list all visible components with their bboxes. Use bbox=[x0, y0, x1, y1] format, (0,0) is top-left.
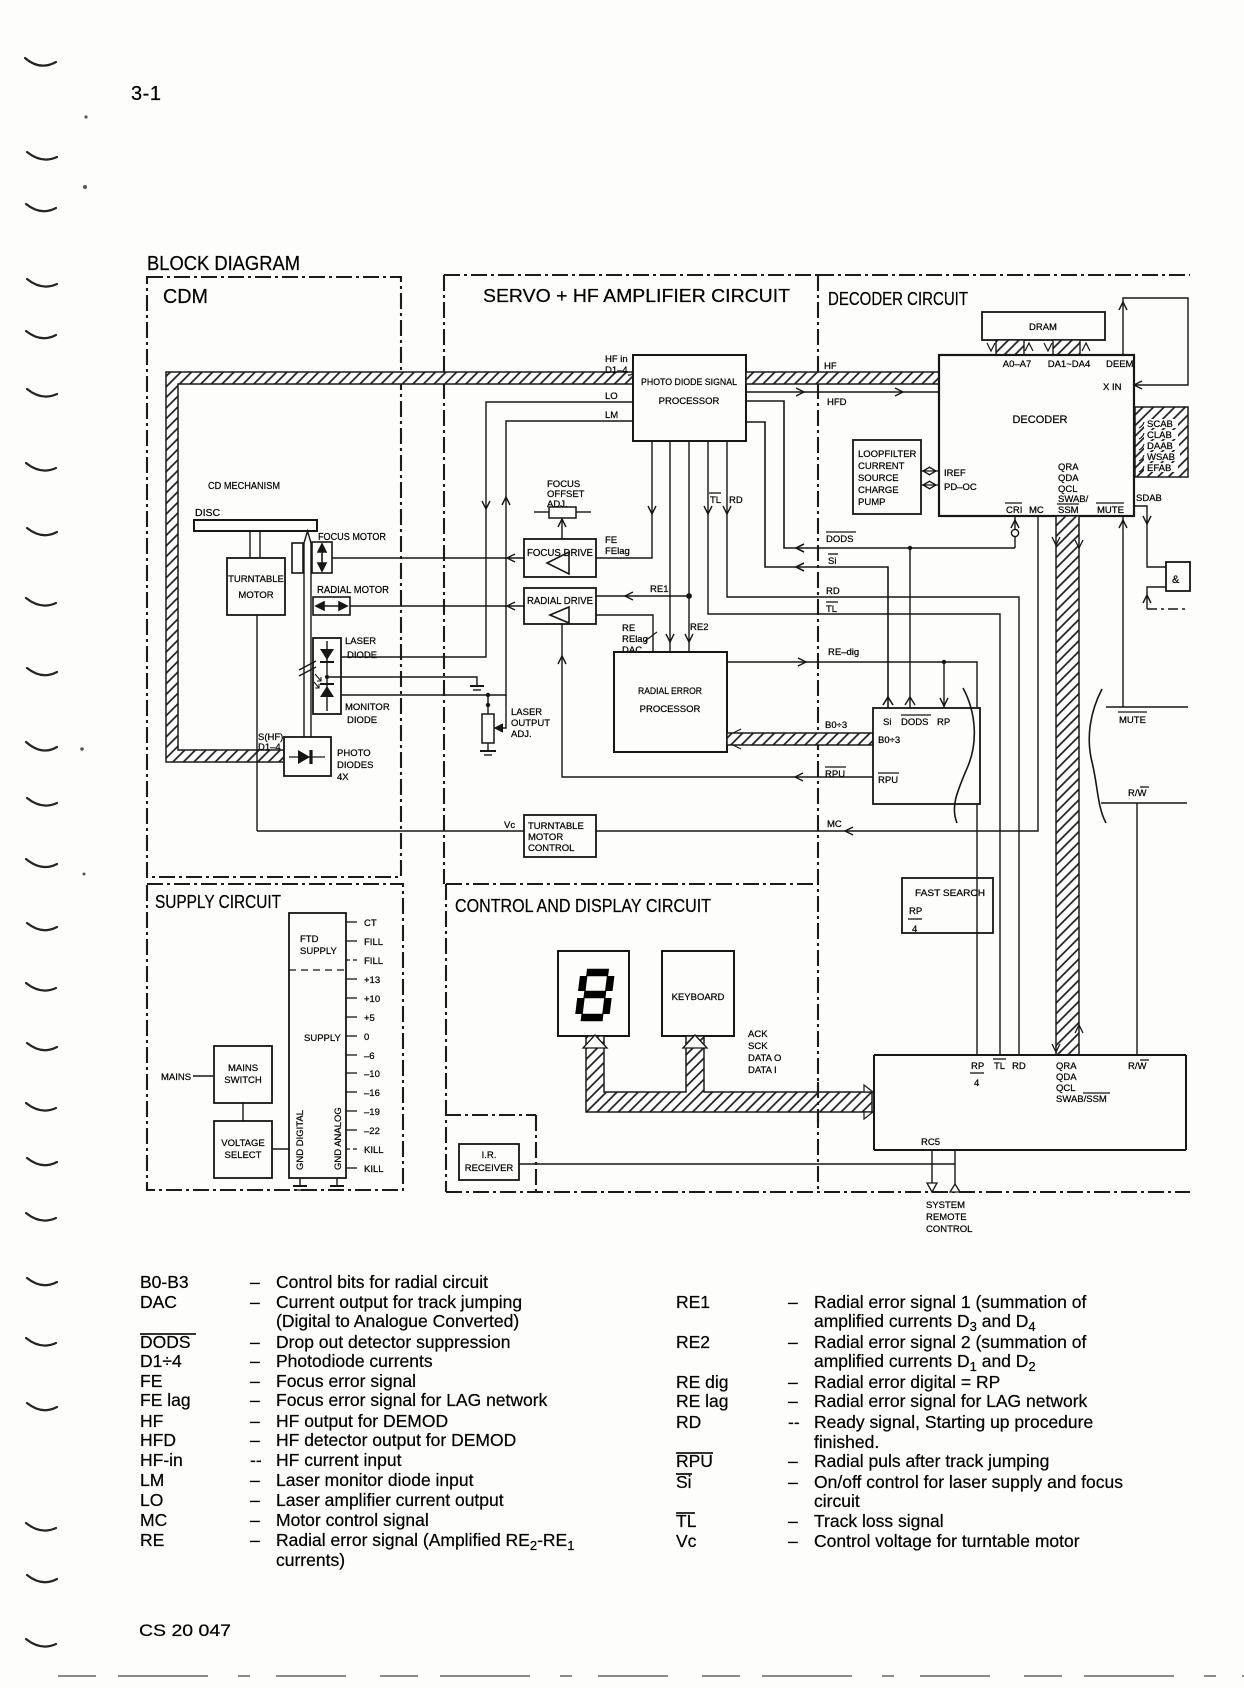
svg-text:RD: RD bbox=[729, 495, 743, 506]
svg-text:CT: CT bbox=[364, 918, 377, 929]
svg-text:+10: +10 bbox=[364, 994, 380, 1005]
svg-text:RP: RP bbox=[971, 1061, 984, 1072]
wire RE2 PDSP to radial error processor bbox=[685, 441, 693, 652]
svg-text:HFD: HFD bbox=[827, 397, 847, 408]
turntable motor M1 bbox=[227, 558, 285, 615]
svg-text:–: – bbox=[788, 1531, 798, 1551]
svg-text:CD MECHANISM: CD MECHANISM bbox=[208, 480, 280, 492]
svg-text:Motor control signal: Motor control signal bbox=[276, 1510, 429, 1530]
svg-text:CONTROL: CONTROL bbox=[528, 843, 574, 854]
svg-text:KILL: KILL bbox=[364, 1164, 384, 1175]
svg-text:–: – bbox=[250, 1371, 260, 1391]
svg-text:–: – bbox=[788, 1292, 798, 1312]
svg-text:–: – bbox=[250, 1510, 260, 1530]
svg-text:Radial error signal 1 (summati: Radial error signal 1 (summation of bbox=[814, 1292, 1086, 1312]
legend DODS overline bbox=[140, 1333, 196, 1335]
wire FE FElag bbox=[596, 441, 656, 558]
svg-text:RD: RD bbox=[826, 586, 840, 597]
svg-text:SDAB: SDAB bbox=[1136, 493, 1162, 504]
CDM photodiode signal hatched bus S(HF) D1-4 bbox=[166, 372, 633, 762]
svg-text:MAINS: MAINS bbox=[228, 1063, 258, 1074]
CONTROL region border bbox=[446, 884, 1190, 1192]
laser diode / monitor diode package bbox=[313, 638, 341, 714]
display and keyboard hatched bus to microcomputer bbox=[583, 1035, 873, 1119]
svg-text:FILL: FILL bbox=[364, 937, 383, 948]
microcomputer block bbox=[874, 1055, 1186, 1150]
svg-text:&: & bbox=[1172, 574, 1180, 586]
svg-text:–: – bbox=[788, 1472, 798, 1492]
svg-text:amplified currents D1 and D2: amplified currents D1 and D2 bbox=[814, 1351, 1036, 1374]
svg-text:FE: FE bbox=[605, 535, 617, 546]
wire PD-OC bbox=[921, 481, 939, 489]
svg-text:Si: Si bbox=[828, 556, 836, 567]
legend Si overline bbox=[676, 1473, 692, 1475]
svg-text:QDA: QDA bbox=[1056, 1072, 1077, 1083]
svg-text:KILL: KILL bbox=[364, 1145, 384, 1156]
seven segment display block bbox=[558, 951, 629, 1036]
svg-text:HF: HF bbox=[140, 1411, 163, 1431]
spindle bbox=[250, 531, 260, 558]
svg-text:QRA: QRA bbox=[1058, 462, 1079, 473]
svg-text:QCL: QCL bbox=[1056, 1083, 1076, 1094]
wire CRI decoder pin bbox=[1011, 516, 1019, 548]
svg-text:RE lag: RE lag bbox=[676, 1391, 729, 1411]
svg-text:MC: MC bbox=[1029, 505, 1044, 516]
svg-text:LO: LO bbox=[140, 1490, 163, 1510]
legend RPU overline bbox=[676, 1452, 713, 1454]
svg-text:RADIAL MOTOR: RADIAL MOTOR bbox=[317, 584, 389, 596]
wire RPU radial circuit box to radial drive bbox=[558, 624, 873, 781]
labels monitor diode bbox=[345, 702, 390, 726]
svg-text:RP: RP bbox=[909, 906, 922, 917]
label R/W upper bbox=[1128, 787, 1149, 799]
svg-text:CS 20 047: CS 20 047 bbox=[139, 1621, 231, 1640]
svg-text:QRA: QRA bbox=[1056, 1061, 1077, 1072]
svg-text:QDA: QDA bbox=[1058, 473, 1079, 484]
svg-text:DATA O: DATA O bbox=[748, 1053, 781, 1064]
svg-text:SWAB/SSM: SWAB/SSM bbox=[1056, 1094, 1107, 1105]
svg-text:FE: FE bbox=[140, 1371, 162, 1391]
svg-text:GND ANALOG: GND ANALOG bbox=[333, 1107, 344, 1170]
svg-text:Drop out detector suppression: Drop out detector suppression bbox=[276, 1332, 510, 1352]
svg-text:Si: Si bbox=[883, 717, 891, 728]
junction dot DODS node bbox=[908, 546, 912, 550]
svg-text:SOURCE: SOURCE bbox=[858, 473, 899, 484]
label TL bbox=[826, 602, 838, 615]
svg-text:CONTROL: CONTROL bbox=[926, 1224, 972, 1235]
svg-text:BLOCK DIAGRAM: BLOCK DIAGRAM bbox=[147, 253, 300, 275]
wire Si PDSP to radial circuit box bbox=[746, 422, 893, 708]
DA1-DA4 hatched data stub bbox=[1044, 340, 1090, 355]
focus motor bbox=[292, 531, 386, 573]
svg-text:+13: +13 bbox=[364, 975, 380, 986]
svg-text:4: 4 bbox=[912, 924, 917, 935]
junction dot RE-dig RP node bbox=[942, 660, 946, 664]
svg-text:DECODER: DECODER bbox=[1012, 414, 1067, 426]
label laser output adj bbox=[511, 707, 550, 740]
A0-A7 hatched address stub bbox=[987, 340, 1033, 355]
svg-text:MOTOR: MOTOR bbox=[528, 832, 563, 843]
svg-text:ADJ.: ADJ. bbox=[511, 729, 532, 740]
wire RC5 output bbox=[921, 1137, 940, 1192]
keyboard block bbox=[662, 951, 734, 1036]
svg-text:Current output for track jumpi: Current output for track jumping bbox=[276, 1292, 522, 1312]
svg-text:Vc: Vc bbox=[504, 820, 515, 831]
svg-text:SUPPLY: SUPPLY bbox=[300, 946, 337, 957]
svg-text:–: – bbox=[250, 1430, 260, 1450]
svg-text:–: – bbox=[788, 1511, 798, 1531]
svg-text:MUTE: MUTE bbox=[1119, 715, 1146, 726]
svg-text:HF output for DEMOD: HF output for DEMOD bbox=[276, 1411, 448, 1431]
svg-text:DODS: DODS bbox=[901, 717, 928, 728]
svg-text:RE1: RE1 bbox=[650, 584, 668, 595]
svg-text:RPU: RPU bbox=[825, 769, 845, 780]
svg-text:WSAB: WSAB bbox=[1147, 452, 1175, 463]
voltage select block bbox=[214, 1121, 272, 1178]
brace curve beside mute and r/w lines bbox=[1089, 689, 1106, 823]
svg-text:Radial error signal for LAG ne: Radial error signal for LAG network bbox=[814, 1391, 1088, 1411]
svg-text:SCK: SCK bbox=[748, 1041, 768, 1052]
wire Vc bbox=[257, 820, 524, 831]
svg-text:–: – bbox=[250, 1530, 260, 1550]
svg-text:–: – bbox=[250, 1411, 260, 1431]
label S(HF) D1-4 bbox=[258, 732, 283, 753]
svg-text:SUPPLY: SUPPLY bbox=[304, 1033, 341, 1044]
svg-text:MC: MC bbox=[827, 819, 842, 830]
radial motor bbox=[313, 584, 389, 615]
svg-text:FTD: FTD bbox=[300, 934, 319, 945]
svg-text:HF detector output for DEMOD: HF detector output for DEMOD bbox=[276, 1430, 516, 1450]
svg-text:–: – bbox=[788, 1332, 798, 1352]
svg-text:RADIAL DRIVE: RADIAL DRIVE bbox=[527, 595, 593, 607]
svg-text:CRI: CRI bbox=[1006, 505, 1022, 516]
svg-text:D1÷4: D1÷4 bbox=[140, 1351, 182, 1371]
svg-text:DODS: DODS bbox=[140, 1332, 191, 1352]
wire R/W line to microcomputer bbox=[1101, 803, 1187, 1055]
wire focus drive to focus offset adj bbox=[558, 518, 566, 539]
svg-text:FE lag: FE lag bbox=[140, 1390, 191, 1410]
radial drive amplifier A2 bbox=[524, 588, 596, 624]
svg-text:PHOTO: PHOTO bbox=[337, 748, 371, 759]
svg-text:–: – bbox=[250, 1490, 260, 1510]
supply block bbox=[289, 913, 346, 1178]
svg-text:SUPPLY CIRCUIT: SUPPLY CIRCUIT bbox=[155, 892, 281, 912]
svg-text:R/W: R/W bbox=[1128, 1061, 1147, 1072]
wire HFD bbox=[746, 388, 939, 396]
wire turntable motor to Vc bbox=[256, 615, 258, 831]
remote control up arrow bbox=[950, 1184, 960, 1192]
wire LO bbox=[341, 402, 633, 657]
svg-text:RE2: RE2 bbox=[676, 1332, 710, 1352]
svg-text:OUTPUT: OUTPUT bbox=[511, 718, 550, 729]
legend left column bbox=[140, 1272, 574, 1570]
bus label HF in / D1-4 bbox=[605, 354, 634, 376]
label MUTE line bbox=[1118, 712, 1147, 726]
wire SDAB bbox=[1134, 506, 1166, 567]
svg-text:DISC: DISC bbox=[195, 507, 221, 519]
svg-text:D1–4: D1–4 bbox=[258, 742, 281, 753]
svg-text:--: -- bbox=[250, 1450, 262, 1470]
radial circuit control box bbox=[873, 708, 980, 804]
fast search block bbox=[902, 878, 993, 935]
svg-text:RD: RD bbox=[676, 1412, 701, 1432]
wire RE-dig radial error processor to fast search and microcomputer bbox=[727, 658, 977, 1055]
wire DODS branch to radial circuit box bbox=[905, 548, 915, 708]
svg-text:TURNTABLE: TURNTABLE bbox=[528, 821, 584, 832]
svg-text:DIODES: DIODES bbox=[337, 760, 373, 771]
svg-text:DEEM: DEEM bbox=[1106, 359, 1134, 370]
svg-text:–19: –19 bbox=[364, 1107, 380, 1118]
mains switch block bbox=[214, 1046, 272, 1103]
turntable motor control block bbox=[524, 815, 596, 857]
wire AND gate second input bbox=[1143, 587, 1188, 609]
svg-text:MONITOR: MONITOR bbox=[345, 702, 390, 713]
wire mains input bbox=[161, 1072, 214, 1083]
svg-text:SELECT: SELECT bbox=[225, 1150, 262, 1161]
svg-text:currents): currents) bbox=[276, 1550, 345, 1570]
laser beam path bbox=[299, 531, 316, 738]
svg-text:Radial error signal 2 (summati: Radial error signal 2 (summation of bbox=[814, 1332, 1086, 1352]
svg-text:Control voltage for turntable: Control voltage for turntable motor bbox=[814, 1531, 1080, 1551]
svg-text:–: – bbox=[250, 1272, 260, 1292]
svg-text:PUMP: PUMP bbox=[858, 497, 885, 508]
ground digital bbox=[293, 1178, 307, 1190]
svg-text:–: – bbox=[788, 1451, 798, 1471]
svg-text:–: – bbox=[250, 1332, 260, 1352]
svg-text:SYSTEM: SYSTEM bbox=[926, 1200, 965, 1211]
svg-text:FOCUS MOTOR: FOCUS MOTOR bbox=[318, 531, 386, 543]
svg-text:LO: LO bbox=[605, 391, 618, 402]
svg-text:D1–4: D1–4 bbox=[605, 365, 628, 376]
svg-text:HFD: HFD bbox=[140, 1430, 176, 1450]
wire voltage select to supply bbox=[272, 1148, 289, 1150]
svg-text:–: – bbox=[250, 1351, 260, 1371]
wire mains switch to voltage select bbox=[242, 1103, 244, 1121]
svg-text:circuit: circuit bbox=[814, 1491, 860, 1511]
svg-text:FElag: FElag bbox=[605, 546, 630, 557]
svg-text:MUTE: MUTE bbox=[1097, 505, 1124, 516]
supply pin ticks and labels bbox=[346, 922, 357, 1168]
svg-text:CONTROL AND DISPLAY CIRCUIT: CONTROL AND DISPLAY CIRCUIT bbox=[455, 896, 711, 916]
disc bbox=[194, 507, 317, 531]
svg-text:–: – bbox=[250, 1390, 260, 1410]
svg-text:DATA I: DATA I bbox=[748, 1065, 777, 1076]
svg-text:PD–OC: PD–OC bbox=[944, 482, 977, 493]
AND gate bbox=[1166, 562, 1190, 591]
svg-text:CDM: CDM bbox=[163, 286, 208, 308]
svg-text:DA1~DA4: DA1~DA4 bbox=[1048, 359, 1091, 370]
svg-text:VOLTAGE: VOLTAGE bbox=[221, 1138, 264, 1149]
label Si bbox=[828, 554, 838, 567]
svg-text:DIODE: DIODE bbox=[347, 650, 377, 661]
wire PDSP pin to radial error processor a bbox=[666, 441, 674, 652]
svg-text:B0÷3: B0÷3 bbox=[825, 720, 847, 731]
svg-text:HF in: HF in bbox=[605, 354, 628, 365]
label DODS bbox=[826, 532, 856, 545]
CDM region border bbox=[147, 277, 401, 877]
legend TL overline bbox=[676, 1512, 695, 1514]
svg-text:PROCESSOR: PROCESSOR bbox=[659, 396, 720, 407]
wire RE radial drive output to radial error processor bbox=[596, 615, 657, 652]
svg-text:HF current input: HF current input bbox=[276, 1450, 402, 1470]
svg-text:ACK: ACK bbox=[748, 1029, 768, 1040]
photo diodes 4x bbox=[284, 737, 331, 776]
svg-text:finished.: finished. bbox=[814, 1432, 879, 1452]
IR receiver block bbox=[459, 1144, 519, 1180]
legend right column bbox=[676, 1292, 1123, 1551]
svg-text:LASER: LASER bbox=[511, 707, 542, 718]
svg-text:TL: TL bbox=[826, 604, 837, 615]
wire IREF bbox=[921, 467, 939, 475]
svg-text:ADJ.: ADJ. bbox=[547, 499, 568, 510]
svg-text:Si: Si bbox=[676, 1472, 692, 1492]
svg-text:RE dig: RE dig bbox=[676, 1372, 729, 1392]
svg-text:LM: LM bbox=[605, 410, 618, 421]
wire RE1 bbox=[596, 592, 689, 600]
wire focus motor to focus drive bbox=[332, 554, 524, 562]
svg-text:SCAB: SCAB bbox=[1147, 419, 1173, 430]
wire radial motor to radial drive bbox=[350, 602, 524, 610]
svg-text:Photodiode currents: Photodiode currents bbox=[276, 1351, 433, 1371]
svg-text:4X: 4X bbox=[337, 772, 349, 783]
svg-text:IREF: IREF bbox=[944, 468, 966, 479]
svg-text:RE: RE bbox=[622, 623, 635, 634]
svg-text:On/off control for laser suppl: On/off control for laser supply and focu… bbox=[814, 1472, 1123, 1492]
svg-text:R/W: R/W bbox=[1128, 788, 1147, 799]
svg-text:EFAB: EFAB bbox=[1147, 463, 1171, 474]
svg-text:SERVO + HF AMPLIFIER CIRCU: SERVO + HF AMPLIFIER CIRCUIT bbox=[483, 286, 790, 306]
brace curve beside radial circuit box bbox=[954, 688, 974, 823]
label TL RD at PDSP pins bbox=[709, 493, 743, 506]
wire MC decoder to turntable motor control bbox=[596, 516, 1038, 835]
SUPPLY region border bbox=[147, 884, 403, 1190]
wire RP branch to radial circuit box bbox=[940, 662, 948, 708]
svg-text:Radial error digital = RP: Radial error digital = RP bbox=[814, 1372, 1000, 1392]
svg-text:–6: –6 bbox=[364, 1051, 375, 1062]
svg-text:DAC: DAC bbox=[140, 1292, 177, 1312]
svg-text:Ready signal, Starting up proc: Ready signal, Starting up procedure bbox=[814, 1412, 1093, 1432]
svg-text:TL: TL bbox=[676, 1511, 697, 1531]
wire IR receiver to microcomputer bbox=[519, 1150, 955, 1184]
svg-text:–16: –16 bbox=[364, 1088, 380, 1099]
B0-B3 hatched bus radial error processor to radial circuit box bbox=[727, 720, 873, 749]
svg-text:Laser amplifier current output: Laser amplifier current output bbox=[276, 1490, 504, 1510]
wire RD PDSP to microcomputer bbox=[723, 441, 1019, 1055]
radial error processor U2 bbox=[614, 652, 727, 752]
svg-text:0: 0 bbox=[364, 1032, 369, 1043]
wire DODS PDSP to decoder CRI and radial circuit bbox=[746, 401, 1015, 552]
SERVO region border bbox=[444, 275, 818, 884]
svg-text:DODS: DODS bbox=[826, 534, 853, 545]
svg-text:HF-in: HF-in bbox=[140, 1450, 183, 1470]
svg-text:X IN: X IN bbox=[1103, 382, 1122, 393]
svg-text:MC: MC bbox=[140, 1510, 167, 1530]
label focus offset adj bbox=[547, 479, 585, 510]
svg-text:TL: TL bbox=[994, 1061, 1005, 1072]
svg-text:--: -- bbox=[788, 1412, 800, 1432]
svg-text:RC5: RC5 bbox=[921, 1137, 940, 1148]
svg-text:RPU: RPU bbox=[676, 1451, 713, 1471]
svg-text:RD: RD bbox=[1012, 1061, 1026, 1072]
svg-text:CURRENT: CURRENT bbox=[858, 461, 905, 472]
svg-text:3-1: 3-1 bbox=[131, 83, 161, 105]
label photo diodes 4x bbox=[337, 748, 373, 783]
svg-text:RE2: RE2 bbox=[690, 622, 708, 633]
focus offset adj potentiometer R1 bbox=[534, 507, 591, 518]
svg-text:RE1: RE1 bbox=[676, 1292, 710, 1312]
svg-text:GND DIGITAL: GND DIGITAL bbox=[295, 1110, 306, 1170]
svg-text:Vc: Vc bbox=[676, 1531, 697, 1551]
svg-text:RADIAL ERROR: RADIAL ERROR bbox=[638, 686, 702, 697]
svg-text:TL: TL bbox=[710, 495, 721, 506]
svg-text:MAINS: MAINS bbox=[161, 1072, 191, 1083]
svg-text:DRAM: DRAM bbox=[1029, 322, 1057, 333]
svg-text:LOOPFILTER: LOOPFILTER bbox=[858, 449, 917, 460]
svg-text:MOTOR: MOTOR bbox=[238, 590, 273, 601]
svg-text:RE–dig: RE–dig bbox=[828, 647, 859, 658]
svg-text:Track loss signal: Track loss signal bbox=[814, 1511, 944, 1531]
svg-text:–: – bbox=[250, 1292, 260, 1312]
svg-text:Focus error signal: Focus error signal bbox=[276, 1371, 416, 1391]
focus drive amplifier A1 bbox=[524, 539, 596, 577]
svg-text:DAAB: DAAB bbox=[1147, 441, 1173, 452]
svg-text:RP: RP bbox=[937, 717, 950, 728]
svg-text:Radial puls after track jumpin: Radial puls after track jumping bbox=[814, 1451, 1049, 1471]
svg-text:REMOTE: REMOTE bbox=[926, 1212, 967, 1223]
wire LM bbox=[341, 421, 633, 695]
svg-text:amplified currents D3 and D4: amplified currents D3 and D4 bbox=[814, 1311, 1036, 1334]
QRA QDA QCL SWAB-SSM hatched bus decoder to microcomputer bbox=[1052, 516, 1083, 1055]
svg-text:A0–A7: A0–A7 bbox=[1003, 359, 1032, 370]
label RE RElag DAC bbox=[622, 623, 648, 656]
svg-text:–10: –10 bbox=[364, 1069, 380, 1080]
wire monitor diode centre tap with ground bbox=[327, 677, 484, 690]
HF hatched bus PDSP to decoder bbox=[746, 361, 939, 384]
svg-text:+5: +5 bbox=[364, 1013, 375, 1024]
svg-text:LM: LM bbox=[140, 1470, 164, 1490]
svg-text:–: – bbox=[788, 1372, 798, 1392]
svg-text:B0÷3: B0÷3 bbox=[878, 735, 900, 746]
svg-text:B0-B3: B0-B3 bbox=[140, 1272, 189, 1292]
DECODER region border bbox=[818, 275, 1190, 1192]
region border over keyboard bus bbox=[817, 1082, 819, 1122]
svg-text:4: 4 bbox=[974, 1078, 979, 1089]
wire DEEM to X IN loop bbox=[1119, 298, 1188, 389]
IR receiver inner dashed box bbox=[445, 1115, 536, 1192]
label FE FElag bbox=[605, 535, 630, 557]
svg-text:DECODER CIRCUIT: DECODER CIRCUIT bbox=[828, 289, 968, 309]
svg-text:RE: RE bbox=[140, 1530, 164, 1550]
svg-text:CHARGE: CHARGE bbox=[858, 485, 899, 496]
svg-text:RECEIVER: RECEIVER bbox=[465, 1163, 514, 1174]
labels laser diode bbox=[345, 636, 377, 661]
svg-text:CLAB: CLAB bbox=[1147, 430, 1172, 441]
svg-text:FILL: FILL bbox=[364, 956, 383, 967]
svg-text:–: – bbox=[788, 1391, 798, 1411]
svg-text:Laser monitor diode input: Laser monitor diode input bbox=[276, 1470, 474, 1490]
svg-text:PROCESSOR: PROCESSOR bbox=[640, 704, 701, 715]
label RPU bbox=[825, 767, 846, 780]
svg-text:KEYBOARD: KEYBOARD bbox=[672, 992, 725, 1003]
wire TL PDSP to microcomputer bbox=[704, 441, 1000, 1055]
DRAM memory block bbox=[982, 312, 1105, 340]
svg-text:HF: HF bbox=[824, 361, 837, 372]
svg-text:SWITCH: SWITCH bbox=[224, 1075, 262, 1086]
svg-text:–22: –22 bbox=[364, 1126, 380, 1137]
svg-text:Control bits for radial circui: Control bits for radial circuit bbox=[276, 1272, 488, 1292]
wire MUTE decoder to mute line bbox=[1106, 516, 1188, 707]
svg-text:–: – bbox=[250, 1470, 260, 1490]
